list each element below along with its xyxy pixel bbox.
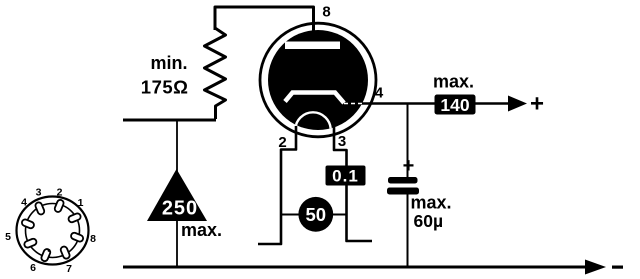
svg-text:2: 2: [278, 134, 286, 151]
svg-text:+: +: [530, 91, 544, 118]
wire: tube pin 3 lead with open foot: [334, 127, 372, 241]
svg-text:5: 5: [5, 231, 11, 243]
svg-text:max.: max.: [181, 220, 222, 240]
svg-text:2: 2: [57, 187, 63, 199]
wire: pin 4 output to +: [360, 102, 509, 105]
svg-text:250: 250: [162, 198, 198, 220]
arrowhead - output: [585, 260, 606, 275]
svg-text:50: 50: [306, 204, 327, 225]
cathode (white hat): [285, 93, 344, 104]
svg-text:8: 8: [90, 233, 96, 245]
voltage marker 140 (black box): [435, 95, 476, 115]
socket pin labels 1-8: [5, 187, 96, 276]
svg-text:60µ: 60µ: [414, 211, 444, 231]
svg-text:min.: min.: [150, 53, 187, 73]
wire: vertical branch to bottom bus: [176, 121, 178, 266]
svg-text:4: 4: [375, 85, 384, 102]
tube V1 envelope: [260, 23, 376, 148]
node marker: 50 circle: [298, 197, 333, 232]
wire: top wire resistor to pin 8: [215, 7, 314, 32]
svg-text:max.: max.: [433, 72, 474, 92]
resistor min.175ohm (zigzag): [205, 28, 226, 119]
svg-text:7: 7: [66, 263, 72, 275]
svg-text:max.: max.: [411, 193, 452, 213]
svg-text:+: +: [403, 155, 415, 177]
wire: bottom bus to -: [123, 266, 586, 269]
wire: mid-left horizontal: [123, 119, 216, 122]
electrolytic capacitor 60u (plates): [388, 177, 418, 184]
anode plate (white bar): [285, 42, 340, 50]
minus sign: [612, 266, 623, 269]
capacitor 0.1 (black box): [326, 166, 366, 186]
wire: heater bypass horizontal: [281, 214, 347, 216]
node marker: 250 V triangle: [147, 169, 207, 221]
arrowhead + output: [508, 96, 527, 112]
svg-text:3: 3: [36, 187, 42, 199]
svg-text:4: 4: [21, 197, 27, 209]
svg-text:1: 1: [78, 197, 84, 209]
wire: capacitor branch vertical: [407, 104, 409, 267]
wire: tube pin 2 lead with open foot: [258, 126, 296, 244]
svg-text:175Ω: 175Ω: [141, 77, 189, 98]
svg-text:140: 140: [440, 95, 469, 115]
heater circle: [295, 112, 330, 147]
svg-text:3: 3: [338, 133, 346, 150]
tube socket (base diagram, bottom view): [17, 197, 89, 265]
svg-text:0.1: 0.1: [332, 167, 359, 186]
svg-text:6: 6: [30, 262, 36, 274]
svg-text:8: 8: [322, 4, 330, 21]
